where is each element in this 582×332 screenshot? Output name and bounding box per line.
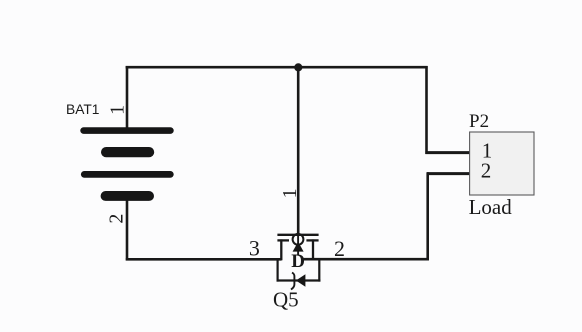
svg-text:2: 2 [481,158,492,182]
wire gate vertical from junction down to Q5 [297,67,300,235]
wire battery top lead [126,66,129,128]
transistor Q5 body-diode loop bottom wire [277,279,321,281]
connector P2 box [470,132,534,195]
wire right rail vertical down to P2 pin 1 [425,66,428,154]
battery BAT1 plate 1 long [80,127,173,134]
battery BAT1 plate 4 short [101,191,154,201]
wire P2 pin1 stub [425,151,469,154]
transistor Q5 body diode triangle [296,274,306,287]
svg-text:2: 2 [106,214,128,224]
wire bottom rail / Q5 pin3 lead [126,258,282,261]
svg-text:1: 1 [279,188,301,198]
transistor Q5 bulk stem [297,235,299,256]
transistor Q5 right channel vertical [312,239,314,260]
wire P2 pin2 stub [427,172,470,175]
transistor Q5 body diode cathode bar [291,273,294,290]
svg-text:3: 3 [249,236,260,261]
transistor Q5 body-diode loop right vertical [318,258,320,281]
svg-text:Q5: Q5 [273,288,299,312]
transistor Q5 filled arrow triangle [293,242,304,252]
battery BAT1 plate 3 long [81,171,174,178]
transistor Q5 circle on bulk [293,234,304,245]
svg-text:P2: P2 [469,111,489,132]
transistor Q5 left channel vertical [280,239,282,260]
wire right return vertical down to bottom rail [426,172,429,260]
transistor Q5 channel right dash [306,239,318,241]
svg-text:BAT1: BAT1 [66,102,99,117]
transistor Q5 gate bar [277,234,318,236]
wire pin2 lead from Q5 to right return [304,258,429,261]
battery BAT1 plate 2 short [101,147,154,157]
transistor Q5 channel left dash [277,239,289,241]
wire top rail from BAT1 pin1 to right rail [126,66,428,69]
svg-text:2: 2 [334,236,345,261]
svg-text:D: D [291,251,305,272]
wire battery bottom lead [126,200,129,261]
transistor Q5 body-diode loop left vertical [277,258,279,281]
svg-text:Load: Load [469,195,513,219]
node junction dot at top rail [294,63,302,71]
svg-text:1: 1 [107,105,129,115]
